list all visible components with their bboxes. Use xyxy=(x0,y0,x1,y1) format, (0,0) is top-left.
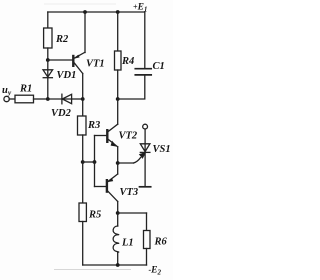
node R1/VD1/VD2 junction xyxy=(46,97,50,101)
capacitor C1 xyxy=(135,69,151,75)
node VT2/VT3 emitters + gate junction xyxy=(116,161,120,165)
node R4/C1/VT2-collector junction xyxy=(116,97,120,101)
wire C1 column from rail xyxy=(144,12,146,68)
svg-text:R1: R1 xyxy=(19,84,32,95)
resistor R6 xyxy=(144,231,151,249)
wire R3 to tie node xyxy=(82,135,84,162)
wire terminal to R1 xyxy=(9,98,15,100)
wire C1 bottom to node xyxy=(118,76,145,99)
inductor L1 xyxy=(113,213,119,265)
resistor R1 xyxy=(15,95,34,103)
wire R3 top xyxy=(82,99,84,116)
wire VS1 gate xyxy=(118,152,146,163)
node L1 bottom on rail xyxy=(116,263,120,267)
scan artifact bottom rule xyxy=(54,269,131,271)
node base tie right xyxy=(93,160,97,164)
wire VT1 base xyxy=(48,59,73,61)
thyristor VS1 xyxy=(140,124,151,187)
wire VT2 base drop xyxy=(94,136,96,163)
diode VD2 xyxy=(48,94,83,104)
wire VD1 to node xyxy=(47,78,49,99)
svg-text:VS1: VS1 xyxy=(153,144,171,155)
resistor R3 xyxy=(78,116,87,135)
wire VT2 collector xyxy=(117,99,119,124)
wire VT1 emitter to rail xyxy=(84,12,86,53)
resistor R4 xyxy=(115,51,122,70)
wire VT1 collector column xyxy=(82,74,84,100)
wire VT3 emitter up xyxy=(117,163,119,174)
node base tie left xyxy=(81,160,85,164)
wire R5 top xyxy=(82,162,84,203)
terminal u_y xyxy=(4,96,9,101)
svg-text:VD1: VD1 xyxy=(57,70,77,81)
svg-text:-E2: -E2 xyxy=(149,266,162,277)
diode VD1 xyxy=(43,60,53,78)
svg-text:uy: uy xyxy=(2,85,12,97)
wire rail to R4 xyxy=(117,12,119,51)
node R2/VD1/VT1-base junction xyxy=(46,58,50,62)
svg-text:C1: C1 xyxy=(153,61,165,72)
svg-text:R4: R4 xyxy=(121,56,134,67)
resistor R2 xyxy=(44,28,52,48)
svg-text:VT3: VT3 xyxy=(120,187,139,198)
node VD2/VT1-collector/R3 junction xyxy=(81,97,85,101)
transistor VT3 (PNP) xyxy=(95,174,118,202)
transistor VT2 (NPN) xyxy=(95,124,118,147)
resistor R5 xyxy=(79,203,86,222)
wire VT2 emitter xyxy=(117,147,119,163)
wire R2 to node xyxy=(47,48,49,60)
svg-text:R6: R6 xyxy=(154,237,168,248)
svg-text:R2: R2 xyxy=(55,34,69,45)
wire R1 to node xyxy=(34,98,48,100)
svg-text:VT2: VT2 xyxy=(119,131,138,142)
wire R6 column xyxy=(146,213,148,231)
wire R6 to bottom rail xyxy=(146,249,148,266)
wire bottom rail xyxy=(83,264,147,266)
wire tie node to VT3 base corner xyxy=(94,162,96,187)
svg-text:L1: L1 xyxy=(121,238,134,249)
wire VT3 collector down xyxy=(117,202,119,214)
node VT1 emitter on rail xyxy=(83,10,87,14)
wire R5 to bottom rail corner xyxy=(82,222,84,266)
svg-text:VD2: VD2 xyxy=(51,108,72,119)
node VT3 collector / L1 / R6 junction xyxy=(116,211,120,215)
transistor VT1 (PNP) xyxy=(73,52,85,73)
wire base tie xyxy=(83,161,95,163)
svg-text:R3: R3 xyxy=(87,120,100,131)
scan artifact top smudge xyxy=(44,3,116,5)
node R4 top on rail xyxy=(116,10,120,14)
svg-text:R5: R5 xyxy=(88,210,101,221)
wire R4 to node xyxy=(117,70,119,99)
wire R2 column top xyxy=(47,12,49,28)
svg-text:VT1: VT1 xyxy=(86,59,105,70)
wire top rail +E1 xyxy=(48,11,145,13)
wire L1-R6 top xyxy=(118,212,147,214)
